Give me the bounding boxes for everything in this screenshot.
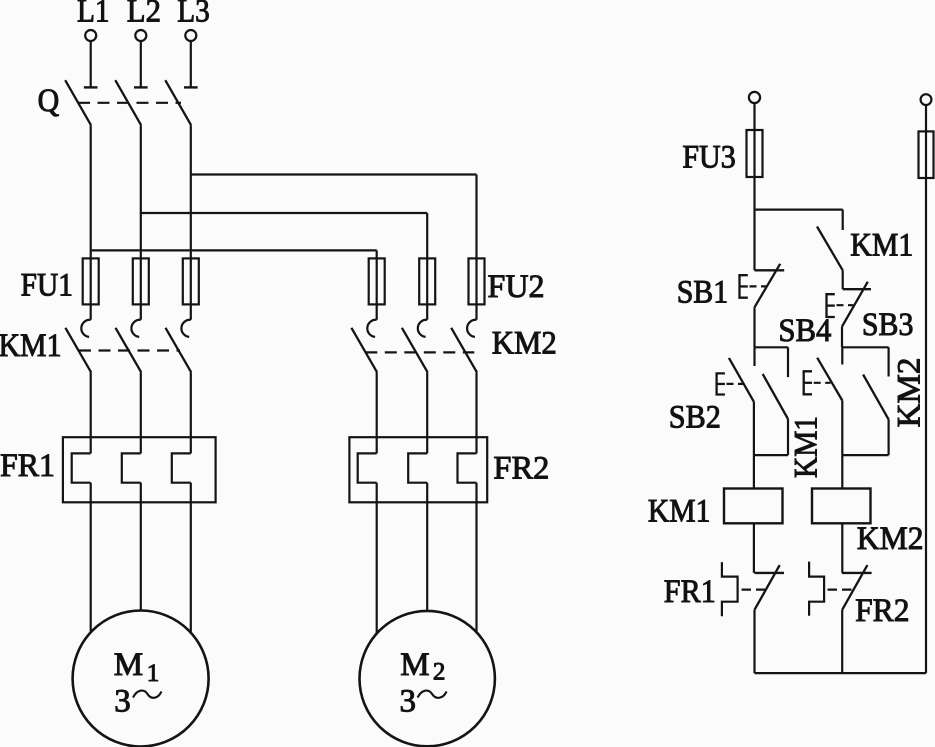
svg-text:FR1: FR1 [664, 574, 716, 610]
svg-text:L2: L2 [127, 0, 161, 30]
svg-text:2: 2 [433, 659, 446, 686]
svg-text:SB2: SB2 [669, 399, 721, 435]
svg-text:M: M [114, 647, 143, 683]
svg-text:KM2: KM2 [892, 358, 928, 428]
svg-text:L1: L1 [77, 0, 110, 30]
svg-text:KM1: KM1 [789, 416, 825, 478]
svg-text:SB1: SB1 [677, 275, 729, 311]
svg-text:KM1: KM1 [850, 227, 913, 263]
svg-text:SB4: SB4 [778, 313, 831, 349]
svg-text:FU3: FU3 [682, 140, 735, 176]
svg-text:3: 3 [400, 683, 417, 719]
svg-text:FR1: FR1 [0, 448, 55, 484]
svg-text:L3: L3 [177, 0, 210, 30]
svg-text:SB3: SB3 [862, 307, 914, 343]
svg-text:3: 3 [114, 683, 131, 719]
svg-text:FU1: FU1 [21, 268, 73, 304]
svg-text:KM1: KM1 [0, 328, 62, 364]
svg-text:KM2: KM2 [857, 521, 924, 557]
svg-text:1: 1 [147, 660, 160, 687]
svg-text:FR2: FR2 [493, 450, 549, 486]
svg-text:FR2: FR2 [855, 593, 909, 629]
svg-text:Q: Q [38, 83, 60, 119]
svg-text:KM1: KM1 [648, 494, 711, 530]
svg-text:M: M [400, 647, 429, 683]
svg-text:FU2: FU2 [488, 269, 545, 305]
svg-text:KM2: KM2 [492, 326, 557, 362]
